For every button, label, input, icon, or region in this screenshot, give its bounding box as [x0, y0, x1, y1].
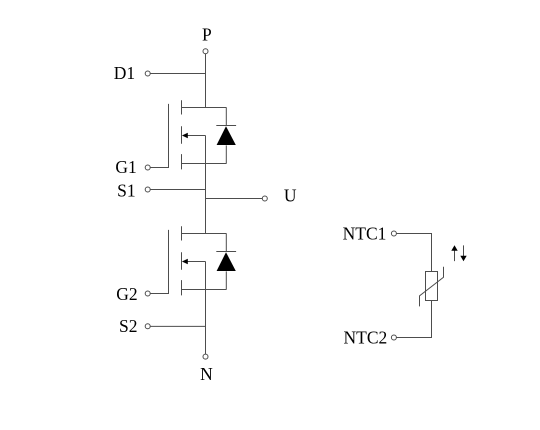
svg-text:N: N — [200, 364, 213, 384]
wire Q2 body rail to N — [205, 262, 207, 355]
diode D-Q2 leads — [225, 234, 227, 290]
transistor Q2 body arrow head — [182, 259, 188, 265]
svg-text:NTC1: NTC1 — [343, 223, 387, 243]
transistor Q2 channel dashes — [181, 226, 183, 295]
wire U to rail — [206, 198, 263, 200]
thermistor RT diagonal stroke — [420, 267, 444, 307]
wire NTC1 to thermistor — [396, 234, 431, 272]
node G2 terminal — [145, 291, 150, 296]
wire midpoint rail (Q1 body to Q2 drain) — [205, 136, 207, 234]
transistor Q1 body arrow head — [182, 133, 188, 139]
node D1 terminal — [145, 71, 150, 76]
transistor Q1 source bar — [181, 163, 227, 165]
svg-text:NTC2: NTC2 — [344, 327, 388, 347]
diode D-Q1 leads — [225, 108, 227, 164]
svg-text:P: P — [202, 24, 212, 44]
arrow down head — [460, 256, 466, 261]
node S1 terminal — [145, 187, 150, 192]
wire S2 to rail — [150, 325, 205, 327]
node NTC2 terminal — [391, 335, 396, 340]
transistor Q1 body arrow wire — [187, 135, 206, 137]
transistor Q2 drain bar — [181, 233, 227, 235]
transistor Q1 channel dashes — [181, 100, 183, 169]
svg-text:G2: G2 — [116, 284, 137, 304]
arrow up head — [451, 245, 457, 251]
transistor Q1 gate line — [150, 104, 168, 168]
node NTC1 terminal — [391, 231, 396, 236]
transistor Q2 source bar — [181, 289, 227, 291]
transistor Q2 body arrow wire — [187, 261, 206, 263]
node N terminal — [203, 354, 208, 359]
diode D-Q2 triangle — [217, 252, 236, 271]
wire P to Q1 drain rail — [205, 54, 207, 108]
svg-text:G1: G1 — [115, 157, 136, 177]
node G1 terminal — [145, 165, 150, 170]
thermistor RT body — [426, 272, 438, 301]
diode D-Q1 triangle — [217, 126, 236, 145]
wire D1 to rail — [150, 73, 205, 75]
svg-text:D1: D1 — [114, 63, 135, 83]
node U terminal — [262, 196, 267, 201]
svg-text:S1: S1 — [117, 180, 135, 200]
transistor Q1 drain bar — [181, 107, 227, 109]
diode D-Q1 cathode bar — [216, 125, 236, 127]
svg-text:U: U — [284, 186, 297, 206]
node S2 terminal — [145, 324, 150, 329]
node P terminal — [203, 49, 208, 54]
diode D-Q2 cathode bar — [216, 251, 236, 253]
transistor Q2 gate line — [150, 230, 168, 294]
arrow down shaft — [463, 245, 465, 256]
arrow up shaft — [454, 250, 456, 261]
svg-text:S2: S2 — [119, 316, 137, 336]
wire S1 to rail — [150, 189, 205, 191]
wire thermistor to NTC2 — [396, 301, 431, 338]
